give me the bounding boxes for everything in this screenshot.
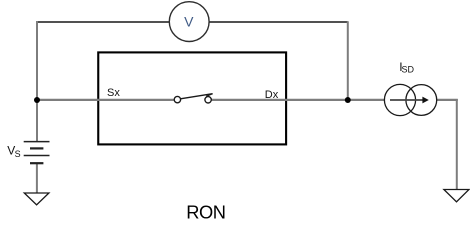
svg-text:RON: RON bbox=[186, 202, 225, 223]
svg-text:Sx: Sx bbox=[107, 87, 120, 99]
svg-text:V: V bbox=[184, 14, 194, 30]
svg-text:SD: SD bbox=[402, 65, 415, 75]
svg-text:S: S bbox=[15, 149, 21, 159]
svg-text:Dx: Dx bbox=[265, 89, 279, 101]
